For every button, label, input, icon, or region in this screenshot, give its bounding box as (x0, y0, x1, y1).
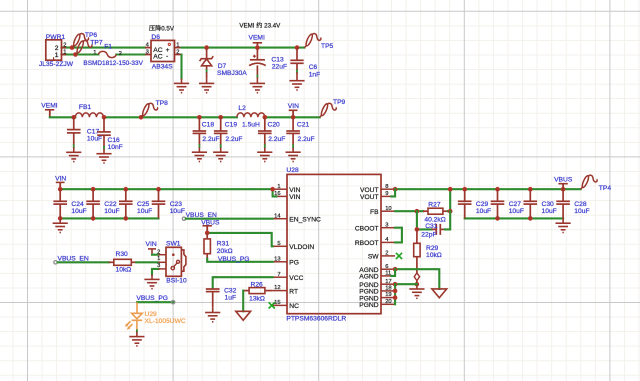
svg-text:VIN: VIN (146, 241, 157, 248)
junction node on bottom wire at TP7 (73, 52, 78, 57)
ground below C17 (66, 148, 81, 162)
svg-text:9: 9 (385, 191, 388, 197)
svg-text:VBUS: VBUS (554, 177, 573, 184)
svg-text:3: 3 (385, 222, 388, 228)
pin 1 VIN (left) (273, 188, 287, 190)
wire stub D7 to ground (206, 70, 208, 72)
svg-text:EN_SYNC: EN_SYNC (289, 217, 321, 224)
capacitor C21 (292, 117, 294, 131)
wire VBUS_EN to pin14 (186, 218, 273, 220)
svg-text:VOUT: VOUT (360, 194, 379, 201)
capacitor C20 (264, 117, 266, 131)
pin 4 RBOOT (right) (381, 241, 395, 243)
svg-text:SW1: SW1 (166, 241, 181, 248)
wire VIN flag to SW1 pin2 (152, 254, 159, 256)
svg-text:10uF: 10uF (574, 208, 589, 215)
net flag VIN stub row3 (59, 182, 61, 189)
wire stub C6 to ground (296, 70, 298, 72)
ground AGND (409, 284, 424, 298)
earth ground below R26 (236, 311, 251, 320)
svg-text:C22: C22 (104, 201, 117, 208)
svg-text:PG: PG (289, 260, 299, 267)
svg-text:D6: D6 (151, 34, 160, 41)
svg-text:VOUT: VOUT (360, 187, 379, 194)
capacitor C29 (464, 189, 466, 201)
junction node VOUT rail / R27 (448, 187, 453, 192)
net port VBUS_EN (left) (54, 261, 57, 264)
test point TP5 (304, 33, 321, 47)
ground below VIN rail (53, 218, 68, 232)
ferrite bead FB1 (75, 113, 103, 117)
svg-text:VIN: VIN (289, 194, 300, 201)
wire pin8-pin9 loop (391, 189, 395, 196)
capacitor C13 (polarized) (256, 48, 258, 60)
pin 17 PGND (right) (381, 283, 395, 285)
zener diode D7 (206, 48, 208, 59)
svg-text:1: 1 (277, 184, 280, 190)
X no-connect pin15 NC (269, 302, 275, 308)
pin 9 VOUT (right) (381, 195, 395, 197)
svg-text:VLDOIN: VLDOIN (289, 244, 314, 251)
capacitor C16 (103, 117, 105, 132)
ground below C6 (289, 76, 304, 90)
svg-text:PWR1: PWR1 (46, 34, 66, 41)
pin 7 VCC (left) (273, 276, 287, 278)
junction node C25 bottom (124, 216, 129, 221)
svg-text:TP9: TP9 (333, 99, 346, 106)
wire R27 right to VOUT rail (448, 189, 450, 211)
svg-text:C18: C18 (202, 121, 215, 128)
junction node C22 top (91, 187, 96, 192)
net flag VBUS stub (562, 184, 564, 190)
capacitor C25 (125, 189, 127, 201)
test point TP4 (581, 175, 598, 189)
svg-text:6: 6 (385, 264, 388, 270)
svg-text:10: 10 (385, 206, 391, 212)
svg-text:NC: NC (289, 303, 299, 310)
resistor R29 (416, 229, 418, 243)
junction node C19 (218, 115, 223, 120)
ground below C20 (257, 147, 272, 161)
wire pin3-pin4 CBOOT/RBOOT loop (395, 228, 402, 243)
svg-text:2.2uF: 2.2uF (268, 136, 285, 143)
wire VBUS_EN to R30 (58, 261, 109, 263)
svg-text:VCC: VCC (289, 275, 303, 282)
junction node at D7 (204, 45, 209, 50)
wire VOUT rail pin8 to TP4 (395, 188, 580, 190)
svg-text:10uF: 10uF (71, 208, 86, 215)
junction node C21 / VIN flag (291, 115, 296, 120)
svg-text:FB: FB (370, 209, 379, 216)
junction node VBUS/R31 (205, 231, 210, 236)
svg-text:C16: C16 (108, 137, 121, 144)
svg-text:1: 1 (176, 42, 179, 48)
svg-text:10nF: 10nF (108, 144, 123, 151)
wire VIN decoupling bottom rail (60, 217, 158, 219)
svg-text:BSI-10: BSI-10 (166, 278, 187, 285)
svg-text:VBUS_PG: VBUS_PG (218, 256, 250, 263)
svg-text:RT: RT (289, 288, 298, 295)
net port VBUS_EN (EN_SYNC wire) (182, 217, 185, 220)
svg-text:1: 1 (157, 256, 160, 262)
test point TP7 (75, 40, 92, 54)
svg-text:1: 1 (93, 50, 96, 56)
svg-text:C30: C30 (542, 201, 555, 208)
wire L2 right to TP9 (265, 116, 320, 118)
svg-text:TP4: TP4 (599, 185, 612, 192)
ground below C28 (556, 218, 571, 232)
svg-text:10uF: 10uF (509, 208, 524, 215)
resistor R30 (109, 261, 114, 263)
net flag VBUS stub (206, 226, 208, 233)
pin 5 VLDOIN (left) (273, 245, 287, 247)
ground below C18 (192, 147, 207, 161)
svg-text:1.5uH: 1.5uH (242, 121, 260, 128)
junction node C18 (197, 115, 202, 120)
wire D6 pin2 to ground (180, 55, 182, 79)
wire stub LED to ground (136, 330, 138, 332)
wire stub C16 to ground (103, 147, 105, 149)
capacitor C28 (562, 189, 564, 201)
junction node AGND (415, 282, 420, 287)
svg-text:2.2uF: 2.2uF (298, 136, 315, 143)
svg-text:TP6: TP6 (85, 32, 98, 39)
wire VOUT bottom rail (465, 217, 563, 219)
wire F1 pin2 to D6 pin3 (116, 53, 145, 55)
wire pin1-pin16 loop (273, 189, 277, 196)
svg-text:17: 17 (385, 279, 391, 285)
pin 6 AGND (right) (381, 268, 395, 270)
wire LED to VBUS_PG port (137, 301, 173, 303)
capacitor C22 (92, 189, 94, 201)
svg-text:1: 1 (55, 52, 59, 59)
capacitor C18 (198, 117, 200, 131)
svg-text:AC: AC (153, 54, 162, 61)
svg-text:TP7: TP7 (90, 40, 103, 47)
wire R30 to SW1 pin1 (136, 261, 158, 263)
svg-text:10uF: 10uF (542, 208, 557, 215)
svg-text:10kΩ: 10kΩ (426, 252, 442, 259)
svg-text:AGND: AGND (359, 274, 378, 281)
junction node C29 top (462, 187, 467, 192)
junction node pin17 (393, 282, 398, 287)
junction node C20 / L2 right (263, 115, 268, 120)
svg-text:PTPSM63606RDLR: PTPSM63606RDLR (286, 316, 346, 323)
svg-text:FB1: FB1 (79, 104, 92, 111)
svg-text:20kΩ: 20kΩ (217, 248, 233, 255)
junction node C30 bottom (528, 216, 533, 221)
net flag VEMI stub row2 (49, 110, 51, 118)
junction node pin19 (393, 295, 398, 300)
wire stub C18 to ground (198, 145, 200, 147)
wire stub C19 to ground (220, 145, 222, 147)
pin 11 AGND (right) (381, 275, 395, 277)
capacitor C27 (497, 189, 499, 201)
test point TP8 (141, 103, 158, 117)
wire PWR1 pin1 to F1 pin1 (bottom) (62, 53, 99, 55)
connector PWR1 (46, 40, 62, 60)
svg-text:2: 2 (119, 51, 122, 57)
svg-text:10uF: 10uF (104, 208, 119, 215)
pin 13 PG (left) (273, 261, 287, 263)
svg-text:13: 13 (274, 256, 280, 262)
svg-text:PGND: PGND (359, 302, 378, 309)
op-amp U28 body (buck module PTPSM63606RDLR) (287, 174, 381, 313)
svg-text:C29: C29 (476, 201, 489, 208)
bridge rectifier D6 (151, 40, 175, 61)
svg-text:R26: R26 (251, 282, 264, 289)
ground below C19 (213, 147, 228, 161)
svg-text:C13: C13 (271, 56, 284, 63)
pin 14 EN_SYNC (left) (273, 218, 287, 220)
svg-text:3: 3 (146, 49, 149, 55)
svg-text:XL-1005UWC: XL-1005UWC (145, 318, 186, 325)
svg-text:2: 2 (157, 249, 160, 255)
wire VEMI rail D6 pin1 to TP5 (182, 47, 305, 49)
wire stub C20 to ground (264, 145, 266, 147)
svg-text:D7: D7 (218, 63, 227, 70)
junction node C28 top (561, 187, 566, 192)
svg-text:10kΩ: 10kΩ (116, 267, 132, 274)
svg-text:22pF: 22pF (421, 231, 436, 238)
svg-text:SW: SW (368, 254, 379, 261)
resistor R31 (206, 233, 208, 239)
ground below C13 (250, 79, 265, 93)
pin 19 PGND (right) (381, 297, 395, 299)
wire FB1 right to L2 left (104, 116, 237, 118)
pin 3 CBOOT (right) (381, 227, 395, 229)
junction node C27 top (495, 187, 500, 192)
earth ground AGND (432, 289, 447, 298)
junction node R27 right (448, 209, 453, 214)
net flag VIN stub SW1 (151, 249, 153, 255)
svg-text:U29: U29 (145, 311, 158, 318)
svg-text:BSMD1812-150-33V: BSMD1812-150-33V (83, 60, 143, 67)
junction node FB1 left / C17 (71, 115, 76, 120)
svg-text:7: 7 (277, 272, 280, 278)
ground below C21 (286, 147, 301, 161)
svg-text:8: 8 (385, 184, 388, 190)
svg-text:VEMI: VEMI (249, 34, 265, 41)
junction node FB1 right / C16 (102, 115, 107, 120)
net flag VIN stub row2 (292, 110, 294, 117)
svg-text:VIN: VIN (288, 103, 299, 110)
svg-text:VEMI 约 23.4V: VEMI 约 23.4V (239, 21, 281, 29)
svg-text:C27: C27 (509, 201, 522, 208)
svg-text:VIN: VIN (289, 187, 300, 194)
pin 12 RT (left) (273, 290, 287, 292)
ground below U29 (129, 332, 144, 346)
svg-text:C31: C31 (425, 223, 438, 230)
svg-text:C28: C28 (574, 201, 587, 208)
junction node C27 bottom (495, 216, 500, 221)
resistor R26 (249, 288, 265, 294)
X no-connect pin2 SW (396, 253, 402, 259)
svg-text:C25: C25 (137, 201, 150, 208)
svg-text:C6: C6 (309, 64, 318, 71)
svg-text:22uF: 22uF (272, 64, 287, 71)
svg-text:C21: C21 (297, 121, 310, 128)
junction node pin6 (393, 267, 398, 272)
wire VBUS to pin5 VLDOIN (207, 233, 272, 246)
net port VBUS_PG (171, 301, 174, 304)
LED U29 (127, 302, 143, 330)
pin 10 FB (right) (381, 210, 395, 212)
test point TP6 (72, 33, 89, 47)
junction node TP8 (139, 115, 144, 120)
svg-text:19: 19 (385, 292, 391, 298)
wire pin7 VCC to C32 (213, 277, 273, 288)
svg-text:F1: F1 (104, 44, 112, 51)
wire VEMI row2 rail left (50, 116, 76, 118)
svg-text:U28: U28 (286, 167, 299, 174)
svg-text:10uF: 10uF (137, 208, 152, 215)
ground below C32 (205, 308, 220, 322)
pin 15 NC (left) (273, 304, 287, 306)
svg-text:10uF: 10uF (170, 208, 185, 215)
resistor R27 (423, 210, 428, 212)
svg-text:10uF: 10uF (87, 136, 102, 143)
svg-text:13kΩ: 13kΩ (249, 295, 265, 302)
svg-text:TP8: TP8 (156, 100, 169, 107)
svg-text:TP5: TP5 (321, 43, 334, 50)
svg-text:AB34S: AB34S (152, 64, 173, 71)
svg-text:12: 12 (274, 285, 280, 291)
capacitor C23 (158, 189, 160, 201)
wire pin6 AGND to earth (395, 269, 439, 289)
capacitor C30 (529, 189, 531, 201)
svg-text:L2: L2 (238, 105, 246, 112)
junction node C22 bottom (91, 216, 96, 221)
junction node VIN rail corner (58, 187, 63, 192)
junction node C25 top (124, 187, 129, 192)
ground below D7 (199, 79, 214, 93)
svg-text:1nF: 1nF (309, 71, 321, 78)
junction node FB left (415, 209, 420, 214)
svg-text:2: 2 (63, 42, 66, 48)
svg-text:C20: C20 (268, 121, 281, 128)
wire stub C17 to ground (73, 145, 75, 147)
pin 18 PGND (right) (381, 290, 395, 292)
junction node U28 pin1 (270, 187, 275, 192)
svg-text:C24: C24 (71, 201, 84, 208)
capacitor C32 (206, 289, 220, 292)
test point TP9 (320, 103, 337, 117)
junction node C30 top (528, 187, 533, 192)
svg-text:VEMI: VEMI (41, 103, 57, 110)
wire pin17 to AGND node (395, 283, 417, 285)
junction node C23 top (156, 187, 161, 192)
wire R31 bottom to pin13 PG (207, 259, 272, 262)
inductor L2 (237, 113, 265, 117)
svg-text:3: 3 (157, 263, 160, 269)
fuse F1 (98, 51, 116, 57)
svg-text:RBOOT: RBOOT (355, 240, 379, 247)
junction node pin8/9 (393, 187, 398, 192)
capacitor C19 (220, 117, 222, 131)
svg-text:JL35-2ZJW: JL35-2ZJW (39, 61, 74, 68)
svg-text:CBOOT: CBOOT (355, 226, 379, 233)
wire VIN rail top row3 (60, 188, 272, 190)
svg-text:2: 2 (176, 49, 179, 55)
wire pin10 FB to R27 (395, 210, 423, 212)
ground below D6 (174, 79, 189, 93)
svg-text:1uF: 1uF (225, 295, 237, 302)
wire PWR1 pin2 to D6 pin4 (top) (62, 47, 146, 49)
capacitor C24 (59, 189, 61, 201)
svg-text:VIN: VIN (55, 176, 66, 183)
svg-text:C19: C19 (225, 121, 238, 128)
svg-text:压降0.5V: 压降0.5V (149, 25, 175, 33)
junction node at C6 (295, 45, 300, 50)
junction node C31 left / R29 (415, 227, 420, 232)
svg-text:VBUS_PG: VBUS_PG (136, 295, 168, 302)
svg-text:14: 14 (274, 213, 281, 219)
wire stub C13 to ground (256, 75, 258, 77)
svg-text:-: - (166, 53, 168, 60)
svg-text:2.2uF: 2.2uF (202, 136, 219, 143)
junction node at C13 (255, 45, 260, 50)
junction node on top wire at TP6 (70, 45, 75, 50)
svg-text:1: 1 (63, 49, 66, 55)
ground below SW1 pin3 (144, 275, 159, 289)
svg-text:R29: R29 (426, 245, 439, 252)
node AGND diamond (414, 273, 419, 281)
svg-text:C23: C23 (170, 201, 183, 208)
svg-text:18: 18 (385, 286, 391, 292)
junction node pin18 (393, 289, 398, 294)
svg-text:2.2uF: 2.2uF (225, 136, 242, 143)
capacitor C6 (296, 48, 298, 61)
wire C31 right up to R27 right (445, 211, 450, 229)
svg-text:10uF: 10uF (476, 208, 491, 215)
ground below C16 (96, 149, 111, 163)
wire stub C21 to ground (292, 145, 294, 147)
svg-text:2: 2 (385, 251, 388, 257)
capacitor C17 (73, 117, 75, 129)
capacitor C31 (432, 224, 445, 235)
svg-text:R30: R30 (116, 251, 129, 258)
pin 2 SW (right) (381, 255, 395, 257)
wire SW1 pin3 to ground (152, 269, 159, 275)
wire pin6-pin11 loop (391, 269, 395, 276)
wire R26 left to earth ground (242, 291, 244, 312)
svg-text:C32: C32 (224, 287, 237, 294)
svg-text:R27: R27 (428, 202, 441, 209)
svg-text:5: 5 (277, 241, 280, 247)
wire FB down to C31 left (417, 211, 432, 229)
svg-text:R31: R31 (217, 241, 230, 248)
net flag VEMI stub (256, 43, 258, 48)
pin 20 PGND (right) (381, 303, 395, 305)
svg-text:SMBJ30A: SMBJ30A (217, 70, 247, 77)
pin 8 VOUT (right) (381, 188, 395, 190)
switch SW1 (166, 247, 181, 276)
junction node bottom rail left (58, 216, 63, 221)
pin 16 VIN (left) (273, 195, 287, 197)
svg-text:20: 20 (385, 299, 391, 305)
wire PGND chain pins 17-20 (394, 284, 396, 304)
